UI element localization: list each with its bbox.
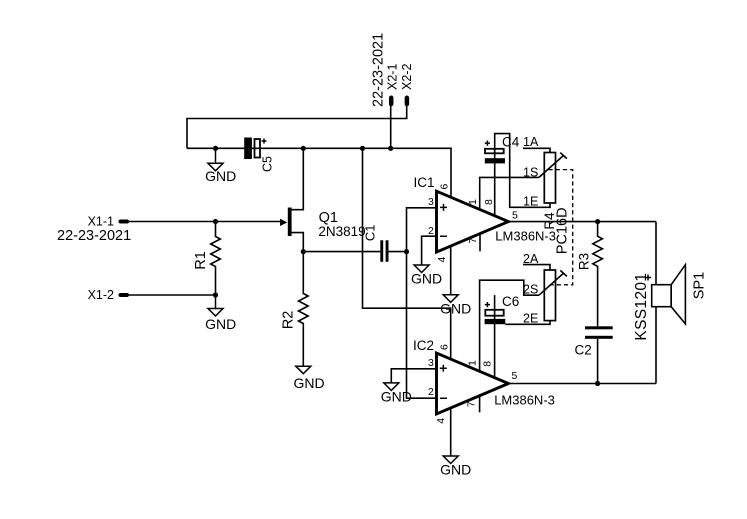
svg-text:LM386N-3: LM386N-3 — [494, 393, 555, 408]
svg-text:GND: GND — [205, 168, 236, 184]
connector pin X1-2 — [121, 293, 128, 297]
resistor R1 — [193, 222, 221, 296]
potentiometer R4 (section 2) — [539, 270, 567, 321]
wire C1 to node — [389, 251, 407, 253]
gang dashed link — [549, 170, 573, 285]
svg-text:8: 8 — [483, 199, 495, 205]
wire IC2 pin7 stub — [479, 396, 481, 413]
svg-text:PC16D: PC16D — [554, 207, 570, 254]
svg-text:GND: GND — [293, 375, 324, 391]
svg-text:GND: GND — [440, 462, 471, 478]
svg-text:6: 6 — [438, 344, 450, 350]
svg-text:LM386N-3: LM386N-3 — [495, 229, 556, 244]
svg-text:GND: GND — [381, 389, 412, 405]
svg-text:2: 2 — [428, 225, 434, 237]
svg-text:C2: C2 — [575, 343, 592, 358]
node C1 output junction — [404, 249, 409, 254]
node rail-X2-1 junction — [388, 146, 393, 151]
transistor Q1 2N3819 — [280, 148, 366, 251]
node source junction — [301, 249, 306, 254]
potentiometer R4 PC16D (section 1) — [539, 153, 570, 255]
svg-text:X1-2: X1-2 — [88, 288, 114, 302]
node output/R3 junction — [595, 219, 600, 224]
ground (rail) — [205, 148, 236, 184]
wire X1-1 to gate — [127, 221, 281, 223]
svg-text:2: 2 — [428, 386, 434, 398]
node X1-1/R1 junction — [213, 219, 218, 224]
net stub 2A — [523, 252, 550, 270]
node output2/C2 junction — [595, 381, 600, 386]
svg-text:3: 3 — [428, 196, 434, 208]
wire output2 up to speaker — [655, 307, 657, 384]
svg-text:SP1: SP1 — [692, 272, 708, 299]
wire X2-2 to ground rail — [187, 104, 407, 148]
svg-text:KSS1201: KSS1201 — [633, 273, 650, 341]
wire 2E to pot2 — [505, 321, 550, 325]
svg-text:1A: 1A — [523, 135, 539, 149]
svg-text:2E: 2E — [523, 312, 538, 326]
svg-text:C1: C1 — [363, 224, 378, 241]
svg-text:C5: C5 — [260, 156, 274, 172]
svg-text:R2: R2 — [281, 311, 297, 330]
svg-text:IC2: IC2 — [413, 338, 434, 353]
svg-text:4: 4 — [436, 257, 448, 263]
node rail-drain junction — [301, 146, 306, 151]
ground (IC1 pin2) — [411, 265, 442, 287]
capacitor C1 — [363, 224, 389, 261]
svg-text:1E: 1E — [523, 195, 538, 209]
op-amp IC2 — [413, 338, 555, 424]
node X1-2/R1 junction — [213, 292, 218, 297]
wire X2-1 down to rail — [390, 104, 392, 148]
ground (IC1 pin4) — [440, 295, 471, 317]
svg-text:2N3819: 2N3819 — [318, 224, 365, 239]
svg-text:6: 6 — [438, 184, 450, 190]
wire IC2 pin3 to ground — [391, 369, 436, 383]
wire source to C1 — [303, 251, 380, 253]
svg-text:22-23-2021: 22-23-2021 — [57, 228, 131, 244]
svg-text:1S: 1S — [523, 165, 538, 179]
svg-text:X2-2: X2-2 — [400, 64, 414, 90]
svg-text:C6: C6 — [502, 294, 519, 309]
svg-text:3: 3 — [428, 357, 434, 369]
wire X1-2 to R1 — [127, 294, 216, 296]
svg-text:5: 5 — [512, 370, 518, 382]
connector pin X1-1 — [121, 220, 128, 224]
connector pin X2-1 — [389, 98, 394, 104]
wire IC2 pin4 to ground — [450, 408, 452, 456]
wire V+ rail — [187, 148, 451, 197]
svg-text:X1-1: X1-1 — [88, 214, 114, 228]
node rail-IC2supply junction — [360, 146, 365, 151]
connector pin X2-2 — [405, 98, 410, 104]
svg-text:IC1: IC1 — [414, 175, 435, 190]
wire IC1 pin2 to ground — [422, 236, 437, 265]
wire output up to speaker — [655, 222, 657, 285]
svg-text:C4: C4 — [502, 134, 520, 149]
wire IC1 pin4 to ground — [450, 246, 452, 295]
speaker SP1 KSS1201 — [633, 265, 708, 341]
svg-text:1: 1 — [466, 360, 478, 366]
capacitor C4 — [485, 134, 550, 217]
wire node to IC1 pin3 — [407, 208, 437, 252]
svg-text:22-23-2021: 22-23-2021 — [371, 33, 387, 107]
capacitor C2 — [575, 326, 613, 383]
op-amp IC1 — [414, 175, 557, 262]
svg-text:5: 5 — [512, 210, 518, 222]
wire IC1 pin1 to 1S — [480, 177, 539, 210]
resistor R2 — [281, 252, 309, 367]
wire node down to IC2 pin2 — [407, 252, 437, 399]
svg-text:7: 7 — [467, 238, 479, 244]
connector X2 labels — [371, 33, 415, 107]
svg-text:1: 1 — [467, 199, 479, 205]
wire IC1 output — [508, 221, 656, 223]
svg-text:2A: 2A — [523, 252, 539, 266]
ground (R2) — [293, 366, 324, 391]
ground (input) — [205, 295, 236, 332]
wire IC2 output — [508, 383, 656, 385]
svg-text:GND: GND — [205, 316, 236, 332]
wire IC1 pin7 stub — [479, 233, 481, 251]
svg-text:GND: GND — [411, 271, 442, 287]
svg-text:8: 8 — [482, 361, 494, 367]
svg-text:GND: GND — [440, 300, 471, 316]
ground (IC2 pin4) — [440, 456, 471, 478]
svg-text:R3: R3 — [577, 253, 592, 270]
wire IC2 pin1 to 2S — [480, 280, 539, 371]
svg-text:7: 7 — [466, 401, 478, 407]
svg-text:2S: 2S — [523, 282, 538, 296]
svg-text:4: 4 — [435, 418, 447, 424]
capacitor C6 — [485, 294, 520, 378]
wire V+ to IC2 pin6 — [363, 148, 451, 359]
svg-text:R1: R1 — [193, 251, 209, 270]
resistor R3 — [577, 222, 603, 327]
net stub 1A — [523, 135, 550, 153]
node rail-GND junction — [213, 146, 218, 151]
svg-text:X2-1: X2-1 — [386, 64, 400, 90]
ground (IC2 pin3) — [381, 383, 412, 405]
capacitor C5 — [244, 138, 274, 173]
